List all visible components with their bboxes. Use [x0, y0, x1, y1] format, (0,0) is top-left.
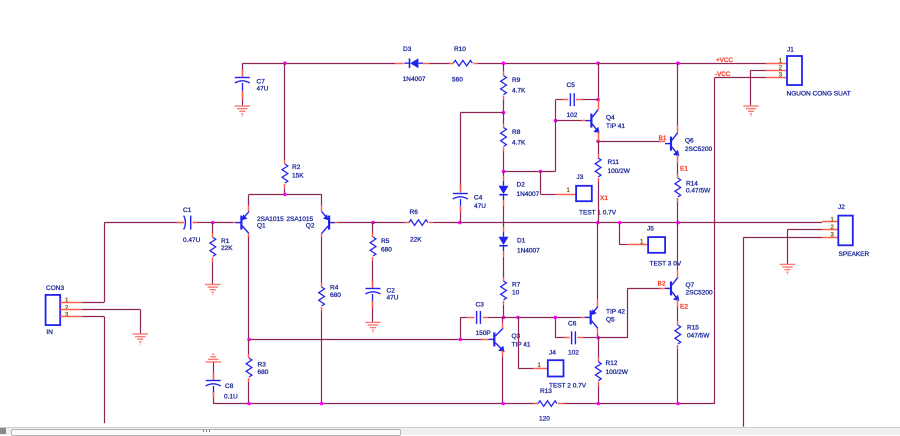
wire C5 left riser	[555, 100, 557, 121]
svg-text:102: 102	[567, 112, 578, 119]
svg-text:TEST 2 0.7V: TEST 2 0.7V	[549, 383, 587, 390]
svg-text:+VCC: +VCC	[716, 57, 733, 64]
capacitor C6	[555, 337, 563, 339]
ground for C7	[235, 105, 251, 107]
svg-text:47U: 47U	[387, 295, 399, 302]
ground for J1	[743, 105, 759, 107]
svg-text:J2: J2	[838, 204, 845, 211]
wire J2 pin2 to ground	[788, 229, 823, 231]
svg-text:B1: B1	[659, 135, 667, 142]
wire output rail	[460, 222, 822, 224]
wire Q4 base	[556, 120, 582, 122]
resistor R11	[598, 141, 600, 154]
svg-text:CON3: CON3	[46, 285, 64, 292]
svg-text:22K: 22K	[221, 245, 233, 252]
scrollbar track	[0, 427, 900, 435]
wire Q6 collector	[677, 125, 679, 133]
svg-text:J1: J1	[787, 47, 794, 54]
svg-text:C5: C5	[567, 82, 576, 89]
svg-text:680: 680	[258, 369, 269, 376]
wire Q4 emitter to Q6 base	[598, 141, 660, 143]
node R9 tap on top rail	[502, 61, 506, 65]
wire -VCC rail	[714, 78, 716, 404]
wire J3 riser	[540, 171, 542, 194]
transistor Q1	[240, 216, 242, 230]
transistor Q4	[590, 114, 592, 128]
svg-text:R3: R3	[258, 362, 267, 369]
svg-text:150P: 150P	[476, 330, 491, 337]
transistor Q5	[590, 310, 592, 324]
wire Q1-Q2 emitter rail	[249, 194, 322, 196]
svg-text:R11: R11	[608, 159, 620, 166]
node Q2 base junction	[371, 221, 375, 225]
node R12 bottom	[597, 402, 601, 406]
resistor R13	[534, 403, 538, 405]
node J3 tap	[539, 170, 543, 174]
connector J5	[620, 244, 628, 246]
svg-text:3: 3	[65, 312, 69, 318]
svg-text:J5: J5	[647, 226, 654, 233]
resistor R5	[372, 223, 374, 233]
svg-text:047/5W: 047/5W	[687, 333, 710, 340]
wire CON3 pin3 drop	[82, 316, 104, 318]
svg-text:Q7: Q7	[686, 282, 695, 289]
connector J4	[518, 368, 533, 370]
svg-text:IN: IN	[46, 329, 53, 336]
node Q5 emitter tap	[596, 221, 600, 225]
svg-text:4.7K: 4.7K	[512, 88, 526, 95]
wire Q6 emitter	[677, 155, 679, 163]
wire Q2 base to R6 node	[335, 222, 338, 224]
svg-text:R4: R4	[330, 285, 339, 292]
svg-text:C2: C2	[387, 288, 396, 295]
svg-text:J3: J3	[577, 174, 584, 181]
wire Q3 emitter	[502, 350, 504, 357]
wire C6 node to Q7 base	[598, 337, 627, 339]
scrollbar corner block	[0, 428, 6, 435]
transistor Q3	[493, 332, 495, 346]
resistor R4	[321, 283, 323, 287]
resistor R15	[677, 321, 679, 325]
svg-text:R7: R7	[512, 282, 521, 289]
svg-text:C1: C1	[183, 207, 192, 214]
wire CON3 pin2 to ground	[82, 309, 140, 311]
svg-text:C4: C4	[474, 195, 483, 202]
node Q5 collector junction	[597, 336, 601, 340]
svg-text:R2: R2	[292, 164, 301, 171]
svg-text:C7: C7	[257, 79, 266, 86]
svg-text:Q6: Q6	[685, 138, 694, 145]
scrollbar grip dots	[203, 430, 211, 432]
svg-text:Q5: Q5	[606, 317, 615, 324]
node R3 bottom	[247, 402, 251, 406]
node Q1 collector-R3 junction	[247, 338, 251, 342]
svg-text:C8: C8	[225, 383, 234, 390]
svg-text:1N4007: 1N4007	[517, 248, 540, 255]
wire Q7 collector	[677, 223, 679, 270]
svg-text:R13: R13	[540, 388, 552, 395]
svg-text:TIP 42: TIP 42	[606, 309, 625, 316]
wire J2 pin3 drop	[744, 237, 823, 239]
wire Q5 base line	[483, 317, 488, 319]
wire Q2 collector down	[321, 234, 323, 237]
svg-text:0.1U: 0.1U	[224, 394, 238, 401]
ground inverted for C8	[205, 361, 221, 363]
connector CON3	[46, 295, 61, 325]
svg-text:1: 1	[567, 188, 571, 194]
svg-text:C6: C6	[568, 321, 577, 328]
connector J3	[541, 194, 556, 196]
svg-text:R12: R12	[606, 360, 618, 367]
node J4 tap	[516, 316, 520, 320]
node Q3 emitter bottom	[501, 402, 505, 406]
svg-text:R15: R15	[687, 325, 699, 332]
node Q6 collector tap on top rail	[676, 61, 680, 65]
svg-text:D1: D1	[517, 238, 526, 245]
node C4 tap	[458, 221, 462, 225]
node Q4 collector tap on top rail	[596, 61, 600, 65]
node R15 bottom	[676, 402, 680, 406]
svg-text:100/2W: 100/2W	[608, 168, 631, 175]
svg-text:2SC5200: 2SC5200	[686, 290, 713, 297]
svg-text:NGUON CONG SUAT: NGUON CONG SUAT	[787, 91, 851, 98]
svg-text:D2: D2	[517, 182, 526, 189]
svg-text:1N4007: 1N4007	[517, 191, 540, 198]
connector J2	[822, 221, 838, 223]
capacitor C8	[213, 362, 215, 373]
svg-text:R14: R14	[686, 181, 698, 188]
node Q7 collector tap	[676, 221, 680, 225]
wire Q5 emitter up	[597, 299, 599, 306]
svg-text:TIP 41: TIP 41	[512, 342, 531, 349]
resistor R9	[503, 63, 505, 71]
svg-text:TIP 41: TIP 41	[606, 123, 625, 130]
capacitor C1	[177, 222, 184, 224]
resistor R6	[373, 222, 405, 224]
svg-text:B2: B2	[658, 281, 666, 288]
node Q4 emitter junction	[596, 139, 600, 143]
capacitor C7	[242, 63, 244, 70]
connector J1	[766, 63, 787, 65]
wire C3 left drop	[460, 317, 462, 339]
svg-text:47U: 47U	[474, 203, 486, 210]
svg-text:Q1: Q1	[257, 223, 266, 230]
node C6 tap	[554, 316, 558, 320]
svg-text:1: 1	[831, 217, 835, 223]
wire Q1 collector to Q3 base	[249, 339, 460, 341]
svg-text:-VCC: -VCC	[715, 71, 731, 78]
wire C4 top feed	[460, 112, 503, 114]
wire J4 riser	[518, 317, 520, 368]
wire J5 riser	[619, 223, 621, 245]
svg-text:R9: R9	[512, 77, 521, 84]
svg-text:100/2W: 100/2W	[606, 369, 629, 376]
wire Q3 collector	[502, 317, 504, 322]
ground for C2	[365, 321, 381, 323]
node R9-R8 junction	[502, 111, 506, 115]
resistor R3	[248, 339, 250, 354]
wire Q4 base node to bias node	[555, 121, 557, 172]
svg-text:R5: R5	[381, 238, 390, 245]
ground for CON3	[133, 333, 149, 335]
svg-text:2: 2	[65, 305, 69, 311]
resistor R2	[284, 63, 286, 160]
resistor R14	[677, 174, 679, 178]
svg-text:Q3: Q3	[512, 333, 521, 340]
wire Q7 base	[660, 288, 665, 290]
capacitor C4	[460, 185, 462, 193]
node C5 junction	[596, 98, 600, 102]
scrollbar thumb	[11, 429, 401, 436]
svg-text:J4: J4	[549, 350, 556, 357]
wire J1 pin2 to ground	[751, 70, 766, 72]
svg-text:15K: 15K	[292, 173, 304, 180]
svg-text:Q4: Q4	[606, 115, 615, 122]
diode D3	[395, 63, 404, 65]
svg-text:10: 10	[512, 290, 520, 297]
resistor R12	[598, 338, 600, 358]
capacitor C5	[556, 99, 562, 101]
svg-text:47U: 47U	[257, 86, 269, 93]
node R2 tap on top rail	[283, 61, 287, 65]
diode D2	[503, 171, 505, 176]
svg-text:E1: E1	[680, 166, 688, 173]
svg-text:D3: D3	[403, 46, 412, 53]
svg-text:C3: C3	[476, 302, 485, 309]
resistor R8	[503, 113, 505, 124]
svg-text:0.47/5W: 0.47/5W	[686, 188, 711, 195]
svg-text:4.7K: 4.7K	[512, 139, 526, 146]
wire Q4 collector	[598, 63, 600, 99]
node R4 bottom	[320, 402, 324, 406]
transistor Q2	[328, 216, 330, 230]
transistor Q6	[670, 137, 672, 151]
wire Q7 emitter	[677, 299, 679, 307]
wire CON3 pin1 to input	[82, 302, 104, 304]
svg-text:2SC5200: 2SC5200	[685, 146, 712, 153]
wire input to Q1 base	[104, 222, 177, 224]
diode D1	[503, 223, 505, 227]
svg-text:R8: R8	[512, 129, 521, 136]
svg-text:102: 102	[568, 350, 579, 357]
wire C6 riser	[555, 317, 557, 337]
ground for J2	[780, 263, 796, 265]
svg-text:Q2: Q2	[306, 223, 315, 230]
wire Q1 collector down	[248, 234, 250, 237]
svg-text:R6: R6	[410, 209, 419, 216]
svg-text:0.47U: 0.47U	[183, 237, 201, 244]
svg-text:120: 120	[539, 416, 550, 423]
resistor R7	[503, 277, 505, 281]
svg-text:SPEAKER: SPEAKER	[839, 251, 870, 258]
capacitor C2	[372, 281, 374, 288]
capacitor C3	[467, 317, 474, 319]
svg-text:22K: 22K	[410, 237, 422, 244]
transistor Q7	[670, 281, 672, 295]
wire bottom rail	[213, 403, 534, 405]
svg-text:X1: X1	[600, 195, 608, 202]
node Q4 base drive junction	[502, 170, 506, 174]
svg-text:TEST 1 0.7V: TEST 1 0.7V	[579, 210, 617, 217]
node C3 drop junction	[459, 338, 463, 342]
svg-text:680: 680	[381, 247, 392, 254]
ground for R1	[205, 284, 221, 286]
node J5 tap	[618, 221, 622, 225]
svg-text:E2: E2	[680, 304, 688, 311]
svg-text:680: 680	[330, 292, 341, 299]
svg-text:560: 560	[452, 77, 463, 84]
wire C1 to Q1 base	[213, 222, 233, 224]
svg-text:1N4007: 1N4007	[403, 76, 426, 83]
wire Q5 collector down	[597, 328, 599, 334]
resistor R1	[212, 223, 214, 233]
wire +VCC top rail	[242, 63, 395, 65]
resistor R10	[449, 63, 453, 65]
svg-text:R10: R10	[454, 46, 466, 53]
node Q4 base tee	[554, 119, 558, 123]
node R7-Q5 base junction	[502, 316, 506, 320]
